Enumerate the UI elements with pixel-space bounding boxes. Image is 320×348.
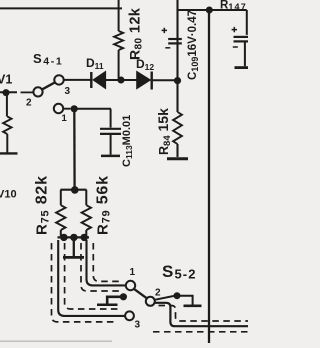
wire node to R84 xyxy=(176,81,178,112)
label R75 82k xyxy=(34,175,52,235)
switch S5-2 contact 1 xyxy=(126,281,135,290)
label R147 xyxy=(220,0,247,12)
svg-text:S5-2: S5-2 xyxy=(162,262,197,282)
diode D11 xyxy=(91,71,105,88)
wire C113 top lead xyxy=(110,109,112,128)
node bottom bus mid xyxy=(70,234,77,241)
node top-right bus xyxy=(206,7,213,14)
wire long vertical bus xyxy=(208,10,210,343)
wire C109 top lead xyxy=(176,0,178,41)
label R84 15k xyxy=(155,108,173,155)
svg-text:1: 1 xyxy=(130,267,136,278)
wire cable B core xyxy=(87,240,126,285)
svg-text:R75 82k: R75 82k xyxy=(34,175,52,235)
shield exit inner xyxy=(159,306,249,322)
node R75/R79 top xyxy=(71,186,79,194)
wire node to R75/R79 bus xyxy=(73,109,76,190)
label D12 xyxy=(136,57,154,72)
net label V10 xyxy=(0,189,17,201)
wire top-right bus xyxy=(178,9,247,11)
resistor R80 xyxy=(114,31,123,50)
wire V1 to S4-1 pin2 xyxy=(21,91,34,93)
svg-text:R147: R147 xyxy=(220,0,247,12)
node D12 / C109 / R84 xyxy=(174,77,181,84)
polarity + of C109 xyxy=(162,28,167,33)
node V1 junction xyxy=(3,89,10,96)
switch S5-2 contact 3 xyxy=(125,311,134,320)
ground bar under R84 xyxy=(167,157,188,160)
svg-text:1: 1 xyxy=(62,113,68,124)
wire D12 to node C109 xyxy=(152,79,178,81)
wire cable A core xyxy=(58,240,125,316)
wire R75 bottom lead xyxy=(60,230,62,236)
ground stem mid xyxy=(73,237,75,256)
svg-text:V10: V10 xyxy=(0,189,17,201)
wire node to ground xyxy=(177,296,193,305)
wire R79 bottom lead xyxy=(85,230,87,236)
shield cable A inner xyxy=(65,243,119,309)
svg-text:C113M0.01: C113M0.01 xyxy=(121,115,134,167)
label R80 12k xyxy=(127,7,145,60)
wire S4-1 pin3 to D11 xyxy=(64,79,92,81)
svg-text:2: 2 xyxy=(26,98,32,109)
wire node to C113 xyxy=(74,108,111,110)
shield exit outer xyxy=(153,331,248,333)
wire S4-1 pin1 to node xyxy=(63,108,70,110)
diode D12 xyxy=(137,71,152,89)
svg-text:2: 2 xyxy=(155,288,161,299)
node S5-2 common xyxy=(174,292,181,299)
pin label 2 xyxy=(155,288,161,299)
node bottom bus right xyxy=(81,234,88,241)
svg-text:3: 3 xyxy=(65,86,71,97)
wire D11 to node xyxy=(106,79,119,81)
node shield junction xyxy=(120,293,127,300)
wire R84 bottom lead xyxy=(176,144,178,157)
switch S4-1 lever xyxy=(42,83,55,90)
svg-text:3: 3 xyxy=(135,320,141,331)
resistor on V1 line xyxy=(3,117,11,135)
label S5-2 xyxy=(162,262,197,282)
svg-text:R84 15k: R84 15k xyxy=(155,108,173,155)
wire R75/R79 bottom bus xyxy=(58,236,90,238)
ground bar S5-2 xyxy=(184,304,202,307)
polarity - of right cap xyxy=(233,46,238,48)
wire top bus xyxy=(0,7,122,9)
svg-text:D11: D11 xyxy=(86,56,104,71)
pin label 3 xyxy=(65,86,71,97)
wire C113 bottom lead xyxy=(110,135,112,155)
wire exit cable core xyxy=(155,303,248,326)
ground bar under C113 xyxy=(101,155,120,158)
capacitor right edge xyxy=(234,37,249,42)
wire R75/R79 top bus xyxy=(61,189,87,191)
wire right-edge cap top lead xyxy=(246,10,248,35)
node diode row / R80 xyxy=(118,77,125,84)
wire exit left xyxy=(0,152,18,154)
wire R79 top lead xyxy=(85,190,87,206)
node bottom bus left xyxy=(60,234,67,241)
switch S4-1 contact 1 xyxy=(54,104,63,113)
label C113 M0.01 xyxy=(121,115,134,167)
label C109 16V 0.47 xyxy=(187,10,200,80)
label D11 xyxy=(86,56,104,71)
svg-text:R79 56k: R79 56k xyxy=(95,175,113,235)
net label V1 xyxy=(0,73,12,87)
wire node to D12 xyxy=(121,79,137,81)
label R79 56k xyxy=(95,175,113,235)
wire R80 top lead xyxy=(118,0,120,31)
ground bar small xyxy=(97,303,118,306)
switch S5-2 contact 2 xyxy=(146,297,155,306)
wire resistor top lead xyxy=(6,92,8,117)
switch S4-1 contact 3 xyxy=(54,75,63,84)
switch S5-2 lever xyxy=(134,289,147,298)
shield cable A outer xyxy=(52,243,118,322)
shield cable B inner xyxy=(81,243,121,291)
wire S5-2 pin2 to node xyxy=(155,296,177,300)
pin label 3 xyxy=(135,320,141,331)
svg-text:R80 12k: R80 12k xyxy=(127,7,145,60)
polarity - of C109 xyxy=(165,47,170,49)
polarity + of right cap xyxy=(232,27,237,32)
pin label 2 xyxy=(26,98,32,109)
label S4-1 xyxy=(33,51,63,68)
wire right cap bottom lead xyxy=(244,41,246,66)
wire faint bottom xyxy=(0,340,112,342)
svg-text:V1: V1 xyxy=(0,73,12,87)
pin label 1 xyxy=(130,267,136,278)
svg-text:D12: D12 xyxy=(136,57,154,72)
resistor R84 xyxy=(173,112,182,144)
resistor R75 xyxy=(56,205,65,230)
shield cable B outer xyxy=(93,243,122,281)
wire R75 top lead xyxy=(60,190,62,206)
pin label 1 xyxy=(62,113,68,124)
wire V1 left xyxy=(0,91,17,93)
capacitor C109 xyxy=(168,39,182,43)
wire shield junction xyxy=(107,297,123,304)
ground bar mid xyxy=(63,256,84,259)
wire resistor bottom lead xyxy=(6,134,8,153)
wire C109 to node xyxy=(176,41,178,81)
resistor R79 xyxy=(82,205,91,230)
switch S4-1 contact 2 xyxy=(33,87,42,96)
capacitor C113 xyxy=(100,129,121,134)
svg-text:C10916V·0.47: C10916V·0.47 xyxy=(187,10,200,80)
wire R80 bottom lead xyxy=(118,50,120,80)
svg-text:S4-1: S4-1 xyxy=(33,51,63,68)
ground bar right edge xyxy=(235,66,249,69)
node S4-1 pin1 xyxy=(71,105,78,112)
